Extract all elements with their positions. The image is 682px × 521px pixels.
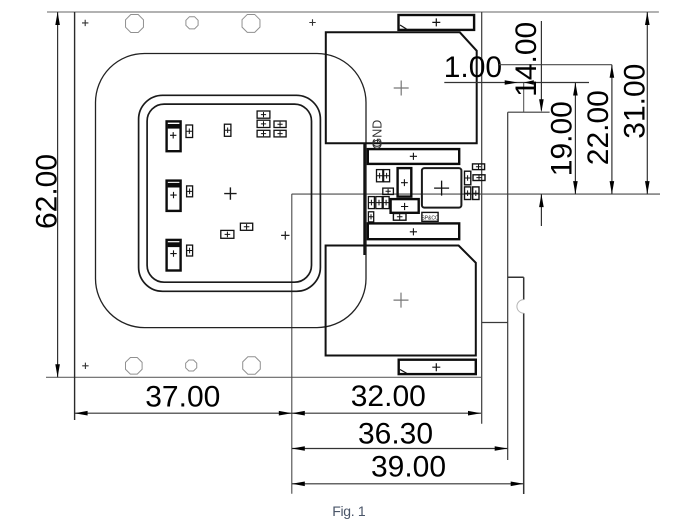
svg-text:37.00: 37.00 — [145, 381, 220, 414]
outer rounded keepout outline — [96, 54, 367, 328]
svg-text:31.00: 31.00 — [619, 64, 652, 139]
pad A lower-mid — [221, 230, 234, 238]
mounting hole top-mid — [186, 17, 198, 29]
gnd pad — [383, 188, 394, 194]
svg-text:62.00: 62.00 — [31, 154, 64, 229]
castellation notch arc — [517, 300, 524, 314]
pad right of C3 — [187, 245, 193, 256]
pad row3 b — [376, 197, 382, 209]
dim 19.00 line — [574, 83, 576, 195]
tab right edge x=523.7 with notch — [523, 277, 525, 494]
right col pad b — [473, 164, 485, 170]
capacitor C3 — [167, 240, 181, 271]
mounting hole bottom-mid — [186, 360, 197, 371]
dim 1.00 leader — [444, 82, 589, 84]
fiducial top-left — [82, 20, 88, 26]
via marker circle — [373, 140, 381, 148]
tab step edge y=322.5 — [482, 322, 508, 324]
fiducial top-right — [309, 19, 315, 25]
module column left edge — [363, 143, 365, 256]
module outline outer — [139, 95, 321, 291]
fiducial mid-right — [281, 231, 289, 239]
svg-text:1.00: 1.00 — [444, 51, 502, 84]
dim 62.00 line — [57, 12, 59, 377]
mounting hole top-left — [126, 15, 144, 33]
copper pour top-right center mark — [394, 81, 409, 96]
svg-text:14.00: 14.00 — [510, 22, 543, 97]
datum vertical x=291.8 — [291, 194, 293, 494]
tab extension x=523.7 upper — [523, 83, 525, 113]
bottom connector pad mark — [432, 363, 440, 371]
module outline inner — [147, 104, 311, 282]
wide pad bottom — [368, 223, 459, 239]
svg-text:22.00: 22.00 — [582, 90, 615, 165]
pad row3 c — [383, 197, 389, 209]
spacc label pad — [422, 212, 438, 221]
right col pad e — [473, 187, 479, 200]
pcb left edge — [74, 12, 76, 420]
copper pour bottom-right center mark — [394, 293, 409, 308]
resistor cluster R2 — [257, 120, 270, 127]
svg-text:Fig. 1: Fig. 1 — [332, 503, 366, 519]
wide pad middle — [391, 199, 419, 213]
svg-text:19.00: 19.00 — [546, 101, 579, 176]
capacitor C2 — [167, 181, 181, 211]
pad row3 a — [368, 197, 374, 209]
pcb right edge x=481.7 — [481, 12, 483, 424]
dim 39.00 line — [292, 483, 524, 485]
dim 32.00 line — [292, 412, 481, 414]
module center mark — [224, 187, 236, 199]
bottom connector pad — [399, 360, 476, 374]
dim 37.00 line — [75, 412, 292, 414]
mounting hole top-right — [242, 14, 260, 32]
resistor cluster R3 — [274, 121, 286, 128]
pad mid top — [224, 124, 231, 136]
tab edge x=507.7 — [507, 112, 509, 460]
dim 36.30 line — [292, 448, 508, 450]
copper pour top-right — [326, 32, 477, 143]
pad pair left b — [384, 170, 390, 182]
dim 22.00 extension — [499, 64, 612, 66]
pad below middle — [393, 214, 406, 221]
dim 14.00 line — [540, 21, 542, 111]
svg-text:32.00: 32.00 — [351, 380, 426, 413]
dim 31.00 line — [646, 12, 648, 194]
bottom connector pad chamfer — [400, 370, 407, 374]
wide pad top — [368, 149, 459, 164]
svg-text:36.30: 36.30 — [358, 418, 433, 451]
pad pair left a — [377, 170, 383, 182]
svg-text:GND: GND — [371, 120, 385, 148]
resistor cluster R1 — [257, 111, 270, 118]
pad right of C2 — [187, 186, 193, 197]
right col pad c — [473, 175, 485, 181]
capacitor C1 — [167, 121, 181, 151]
bottom edge extension line — [46, 376, 481, 378]
top connector pad chamfer — [400, 25, 407, 29]
datum horizontal y=194.1 — [292, 193, 660, 195]
top edge extension line — [47, 11, 659, 13]
pad left single — [368, 212, 373, 222]
pad right of C1 — [186, 125, 193, 138]
ic large square — [422, 168, 462, 208]
svg-text:39.00: 39.00 — [371, 451, 446, 484]
mounting hole bottom-right — [243, 357, 261, 375]
fiducial bottom-left — [82, 363, 88, 369]
tab step edge y=277.3 — [508, 276, 524, 278]
top connector pad — [399, 15, 475, 30]
top connector pad mark — [432, 18, 440, 26]
svg-text:SP&CC: SP&CC — [421, 215, 439, 221]
mounting hole bottom-left — [125, 357, 142, 374]
pad B lower-mid — [240, 223, 252, 230]
right col pad a — [465, 171, 471, 185]
right col pad d — [465, 187, 471, 200]
resistor cluster R5 — [274, 130, 286, 137]
tab top edge y=112.2 — [508, 111, 550, 113]
copper pour bottom-right — [326, 246, 476, 356]
dim 22.00 line — [611, 65, 613, 194]
resistor cluster R4 — [257, 130, 270, 137]
tall component — [398, 168, 412, 197]
